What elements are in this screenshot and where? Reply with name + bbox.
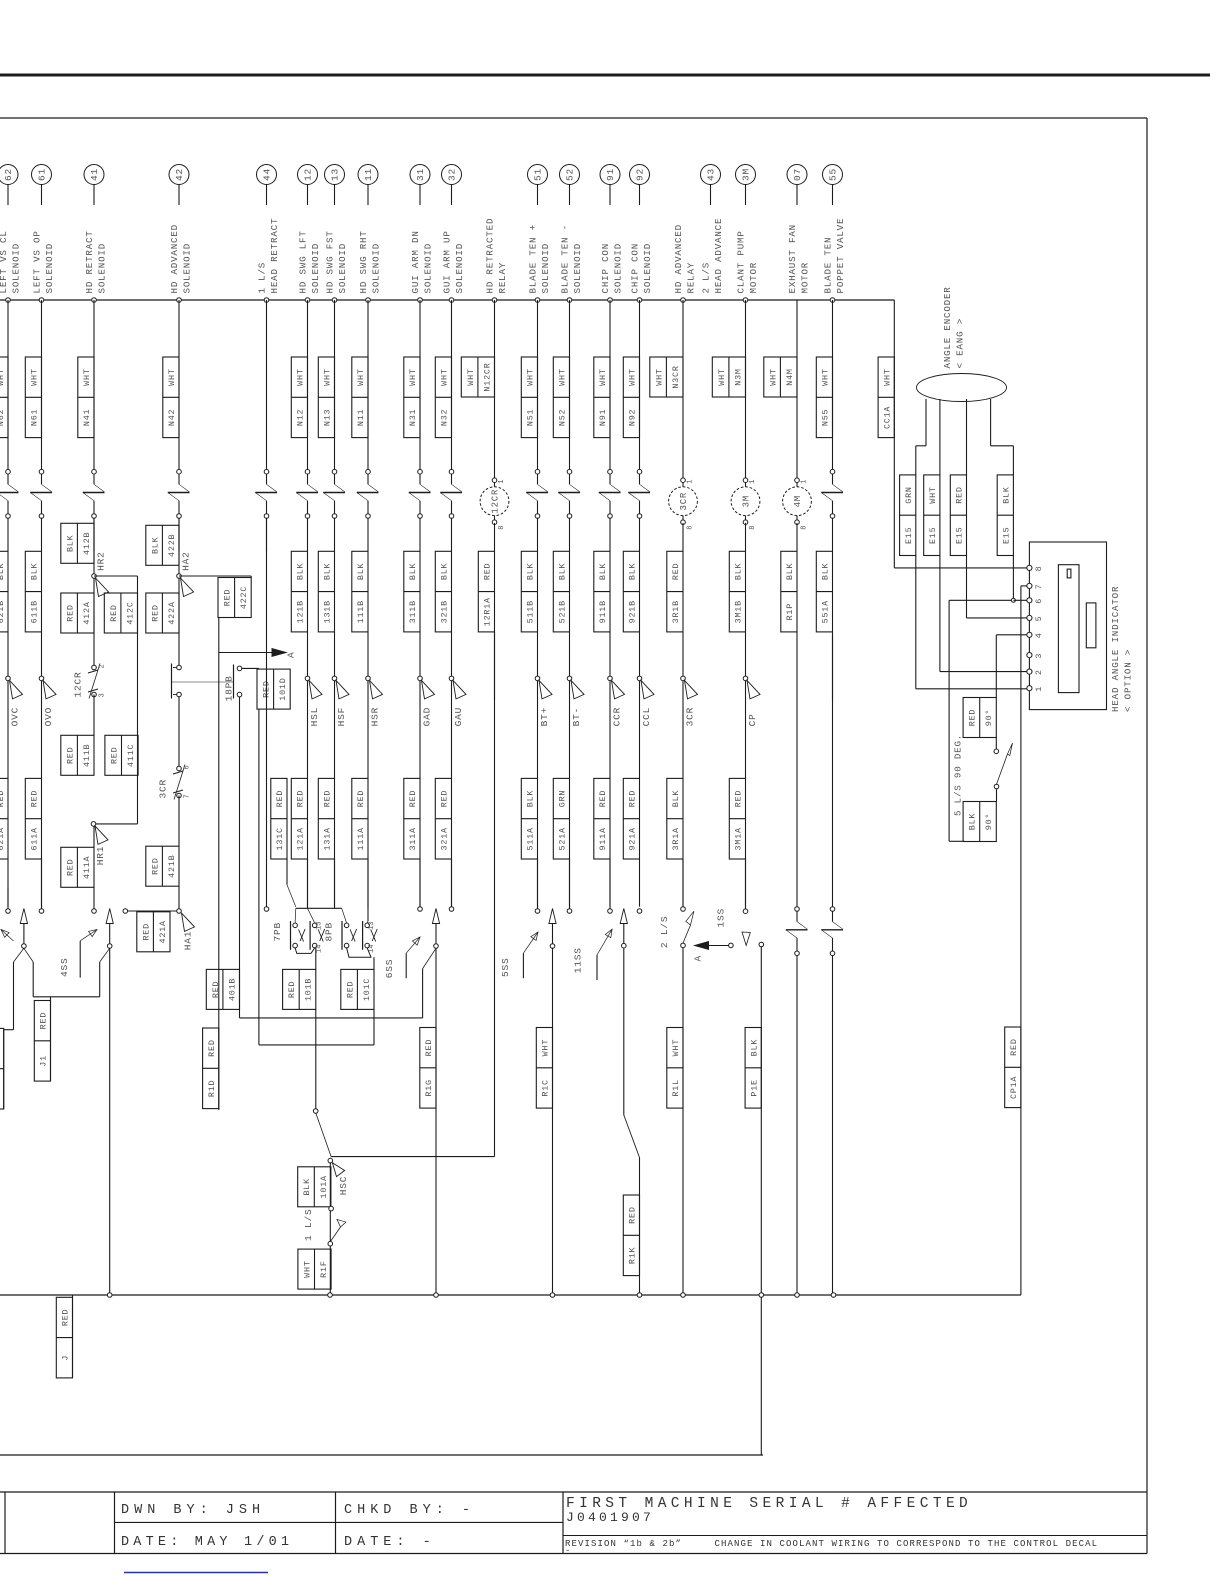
svg-text:13: 13 (368, 922, 376, 930)
svg-text:51: 51 (533, 168, 544, 181)
wire below arrow x=746 (745, 681, 747, 779)
title divider v1 (4, 1492, 6, 1554)
svg-text:WHT: WHT (541, 1039, 551, 1056)
svg-text:3R1A: 3R1A (671, 827, 681, 850)
selector 11SS handle (597, 929, 612, 955)
svg-text:REVISION “1b & 2b” CHANGE: REVISION “1b & 2b” CHANGE IN COOLANT WIR… (565, 1539, 1098, 1549)
svg-text:921B: 921B (628, 600, 638, 623)
terminal break at x=832 (821, 469, 843, 518)
wire: mid section x=8 (7, 632, 9, 678)
svg-text:BLK: BLK (628, 562, 638, 580)
wire label N61 WHT (25, 357, 41, 438)
svg-text:8: 8 (749, 525, 757, 529)
wire 101A down (329, 1163, 331, 1295)
rail node x=761 (759, 1293, 764, 1298)
head angle indicator outline (1029, 542, 1106, 710)
svg-text:SOLENOID: SOLENOID (642, 243, 653, 294)
stub from circle 51 (537, 185, 539, 206)
svg-text:3: 3 (1034, 653, 1044, 658)
svg-text:< EANG >: < EANG > (955, 318, 966, 369)
svg-text:311A: 311A (408, 827, 418, 850)
svg-text:BLK: BLK (1002, 486, 1012, 504)
svg-text:3M1A: 3M1A (734, 827, 744, 850)
wire 4M mid (796, 700, 798, 859)
svg-text:3R1B: 3R1B (671, 600, 681, 623)
svg-text:SOLENOID: SOLENOID (337, 243, 348, 294)
svg-text:A: A (693, 955, 704, 962)
8PB lower bracket (347, 948, 371, 957)
wire label J1 RED (34, 1001, 50, 1082)
svg-text:J1: J1 (39, 1055, 49, 1067)
svg-text:31: 31 (415, 168, 426, 181)
wire label N12 WHT (291, 357, 307, 438)
left leg to edge box (4, 1029, 14, 1031)
svg-text:< OPTION >: < OPTION > (1123, 649, 1134, 712)
pin 4 line to 90deg switch (996, 634, 1029, 636)
bus node at x=538 (535, 298, 540, 303)
svg-text:101D: 101D (278, 677, 288, 700)
svg-text:HSR: HSR (370, 707, 381, 727)
wire 51 to contact (537, 859, 539, 909)
wire number circle 42 (169, 165, 189, 185)
svg-text:5: 5 (1034, 616, 1044, 621)
load name label HD SWG FST SOLENOID (324, 230, 348, 293)
wire label N91 WHT (594, 357, 610, 438)
svg-text:CHKD BY: -: CHKD BY: - (344, 1503, 475, 1518)
svg-text:R1G: R1G (424, 1079, 434, 1096)
terminal break at x=368 (357, 469, 379, 518)
svg-text:412B: 412B (82, 532, 92, 555)
svg-text:HSF: HSF (336, 707, 347, 727)
wire label E15 WHT (924, 475, 940, 556)
contact end wire 44 (264, 907, 269, 912)
terminal break at x=832 (821, 907, 843, 956)
svg-text:411A: 411A (82, 855, 92, 878)
svg-text:8PB: 8PB (324, 922, 335, 942)
svg-text:111A: 111A (356, 827, 366, 850)
wire label CC1A WHT (878, 357, 894, 438)
wire label 131A RED (318, 778, 334, 859)
svg-text:BLK: BLK (323, 562, 333, 580)
svg-text:N3M: N3M (733, 368, 743, 385)
flow arrow HA1 (182, 913, 195, 950)
selector 6SS leg (384, 948, 436, 1018)
wire label N11 WHT (352, 357, 368, 438)
svg-text:SOLENOID: SOLENOID (422, 243, 433, 294)
svg-text:1: 1 (749, 479, 757, 483)
flow arrow GAD (418, 676, 435, 726)
contact end wire 52 (567, 909, 572, 914)
terminal break at x=334 (323, 469, 345, 518)
svg-text:R1C: R1C (541, 1079, 551, 1096)
HSC pivot (328, 1158, 333, 1163)
svg-text:911B: 911B (598, 600, 608, 623)
svg-text:DATE: MAY 1/01: DATE: MAY 1/01 (121, 1535, 293, 1550)
wire: bus to mid, x=42 (41, 300, 43, 472)
wire label N52 WHT (553, 357, 569, 438)
wire 41: 12CR to 411B (93, 695, 95, 736)
indicator side button (1086, 603, 1096, 648)
wire label 911A RED (594, 778, 610, 859)
load name label 2 L/S HEAD ADVANCE (700, 218, 724, 294)
svg-text:BLK: BLK (821, 562, 831, 580)
relay/motor coil 3CR (669, 478, 698, 530)
svg-text:WHT: WHT (558, 368, 568, 385)
svg-text:HR1: HR1 (95, 846, 106, 866)
svg-text:5SS: 5SS (500, 957, 511, 977)
svg-text:HD SWG RHT: HD SWG RHT (358, 230, 369, 293)
terminal break at x=452 (440, 469, 462, 518)
svg-text:RED: RED (408, 790, 418, 807)
bus node at x=640 (637, 298, 642, 303)
relay/motor coil 4M (783, 478, 812, 530)
svg-text:1: 1 (687, 479, 695, 483)
wire label 412A RED (61, 593, 94, 633)
wire label P1E BLK (745, 1028, 761, 1109)
svg-text:11SS: 11SS (573, 947, 584, 973)
svg-text:BLK: BLK (785, 562, 795, 580)
wire label R1F WHT (298, 1249, 331, 1289)
svg-text:BLK: BLK (65, 534, 75, 552)
flow arrow HA2 (181, 551, 194, 596)
svg-text:GAU: GAU (453, 707, 464, 727)
wire label 611A RED (25, 778, 41, 859)
wire 11 to 8PB (367, 859, 369, 921)
svg-text:551A: 551A (821, 600, 831, 623)
svg-text:SOLENOID: SOLENOID (96, 243, 107, 294)
svg-text:CHIP CON: CHIP CON (629, 243, 640, 294)
svg-text:BLK: BLK (749, 1039, 759, 1057)
wire: bus to mid, x=452 (451, 300, 453, 472)
load name label CLANT PUMP MOTOR (735, 230, 759, 293)
svg-text:18PB: 18PB (224, 675, 235, 701)
svg-text:311B: 311B (408, 600, 418, 623)
svg-text:RED: RED (150, 857, 160, 874)
load name label 1 L/S HEAD RETRACT (256, 218, 280, 294)
wire to contact x=452 (451, 859, 453, 907)
svg-text:N51: N51 (526, 409, 536, 426)
wire 31 to contact (419, 859, 421, 907)
svg-text:CC1A: CC1A (882, 406, 892, 429)
svg-text:HSC: HSC (338, 1176, 349, 1196)
svg-text:121A: 121A (296, 827, 306, 850)
wire label E15 RED (950, 475, 966, 556)
wire number circle 43 (701, 165, 721, 185)
svg-text:3M: 3M (742, 495, 752, 507)
svg-text:N12: N12 (296, 409, 306, 426)
wire label 121A RED (291, 778, 307, 859)
wire label N41 WHT (78, 357, 94, 438)
stub from circle 07 (796, 185, 798, 206)
wire number circle 07 (787, 165, 807, 185)
svg-text:HEAD ADVANCE: HEAD ADVANCE (713, 218, 724, 294)
wire number circle 51 (528, 165, 548, 185)
svg-text:OVO: OVO (43, 707, 54, 727)
bus node at x=334 (332, 298, 337, 303)
encoder wire BLK (991, 399, 1014, 598)
svg-text:321B: 321B (440, 600, 450, 623)
svg-text:8: 8 (687, 525, 695, 529)
wire 42: 3CR to 421B (178, 796, 180, 847)
svg-text:MOTOR: MOTOR (799, 262, 810, 294)
7PB lower bracket (295, 948, 315, 954)
wire 41: to 4SS contact (93, 887, 95, 908)
wire: mid section x=452 (451, 632, 453, 678)
svg-text:12R1A: 12R1A (483, 597, 493, 626)
svg-text:BLADE TEN -: BLADE TEN - (559, 224, 570, 293)
wire label 911B BLK (594, 551, 610, 632)
wire label N92 WHT (623, 357, 639, 438)
svg-text:WHT: WHT (717, 368, 727, 385)
wire label 412C RED (104, 593, 137, 633)
svg-text:RED: RED (671, 563, 681, 580)
svg-text:6: 6 (184, 765, 192, 769)
wire label N12CR WHT (461, 357, 494, 397)
wire label 521A GRN (553, 778, 569, 859)
wire label N62 WHT (0, 357, 8, 438)
load name label GUI ARM DN SOLENOID (410, 230, 434, 293)
svg-text:422B: 422B (167, 534, 177, 557)
wire to contact x=334 (334, 859, 336, 907)
junction to J1 (33, 996, 100, 998)
wire label J RED (72, 1295, 74, 1378)
svg-text:RED: RED (150, 604, 160, 621)
svg-text:WHT: WHT (598, 368, 608, 385)
svg-text:WHT: WHT (671, 1039, 681, 1056)
stub from circle 32 (451, 185, 453, 206)
wire label 401B RED (206, 969, 239, 1009)
wire label 90deg BLK (963, 802, 996, 842)
svg-text:611B: 611B (30, 600, 40, 623)
pushbutton 8PB pole 1 (342, 921, 357, 950)
wire below arrow x=42 (41, 681, 43, 779)
svg-text:WHT: WHT (928, 486, 938, 503)
svg-text:RED: RED (39, 1012, 49, 1029)
svg-text:62: 62 (3, 168, 14, 181)
svg-text:N91: N91 (598, 409, 608, 426)
wire: mid section x=308 (307, 632, 309, 678)
svg-text:91: 91 (605, 168, 616, 181)
branch 421A: left from HA1 (128, 910, 177, 912)
svg-text:SOLENOID: SOLENOID (181, 243, 192, 294)
pushbutton 18PB pole 2 (224, 665, 242, 702)
terminal break at x=640 (628, 469, 650, 518)
stub from circle 3M (745, 185, 747, 206)
svg-text:WHT: WHT (628, 368, 638, 385)
flow arrow CP (743, 676, 760, 726)
svg-text:2 L/S: 2 L/S (659, 916, 670, 949)
svg-text:101A: 101A (319, 1175, 329, 1198)
svg-text:N42: N42 (167, 409, 177, 426)
indicator name (1110, 586, 1134, 712)
wire label N4M WHT (764, 357, 797, 397)
svg-text:BLK: BLK (30, 562, 40, 580)
encoder wire WHT (940, 399, 1030, 672)
svg-text:55: 55 (828, 168, 839, 181)
svg-text:BLK: BLK (558, 562, 568, 580)
svg-text:EXHAUST FAN: EXHAUST FAN (787, 224, 798, 293)
svg-text:3M: 3M (741, 168, 752, 181)
terminal break at x=610 (599, 469, 621, 518)
svg-text:HD ADVANCED: HD ADVANCED (169, 224, 180, 293)
wire number circle 31 (410, 165, 430, 185)
contact end wire 92 (637, 909, 642, 914)
branch 422C to A: top (179, 575, 251, 577)
NC contact 12CR (73, 664, 107, 699)
load name label BLADE TEN - SOLENOID (559, 224, 583, 293)
wire label 111A RED (352, 778, 368, 859)
stub from circle 31 (419, 185, 421, 206)
svg-text:N92: N92 (628, 409, 638, 426)
wire label E15 BLK (997, 475, 1013, 556)
load name label CHIP CON SOLENOID (629, 243, 653, 294)
svg-text:N3CR: N3CR (671, 365, 681, 388)
rail node x=834 (831, 1293, 836, 1298)
svg-text:BLK: BLK (302, 1178, 312, 1196)
wire: bus to mid, x=494 (494, 300, 496, 478)
svg-text:N32: N32 (440, 409, 450, 426)
wire label R1G RED (420, 1028, 436, 1109)
wire below arrow x=570 (569, 681, 571, 779)
svg-text:CHIP CON: CHIP CON (600, 243, 611, 294)
svg-text:3CR: 3CR (158, 779, 169, 799)
svg-text:SOLENOID: SOLENOID (370, 243, 381, 294)
svg-text:8: 8 (498, 525, 506, 529)
bridge above pushbuttons (296, 907, 342, 909)
border: outer top heavy line (0, 74, 1210, 77)
selector 4SS handle (80, 930, 97, 941)
svg-text:RED: RED (223, 589, 233, 606)
svg-text:WHT: WHT (296, 368, 306, 385)
svg-text:61: 61 (37, 168, 48, 181)
flow arrow CCR (608, 676, 625, 726)
indicator pin 8 (1027, 565, 1044, 571)
6SS handle shaft (405, 953, 407, 978)
pushbutton 8PB pole 2 (363, 921, 378, 950)
wire: mid section x=683 (682, 632, 684, 678)
wire 4M to rail (796, 859, 798, 907)
wire: bus to mid, x=308 (307, 300, 309, 472)
svg-text:N31: N31 (408, 409, 418, 426)
wire: bus to mid, x=94 (93, 300, 95, 472)
svg-text:5 L/S 90 DEG.: 5 L/S 90 DEG. (953, 734, 964, 816)
wire label 412B BLK (61, 523, 94, 563)
title block top (0, 1491, 1147, 1493)
wire label 321A RED (435, 778, 451, 859)
bus node at x=308 (305, 298, 310, 303)
svg-text:CP1A: CP1A (1009, 1076, 1019, 1099)
svg-text:BLK: BLK (0, 562, 6, 580)
svg-text:90°: 90° (984, 813, 994, 830)
svg-text:411C: 411C (126, 744, 136, 767)
wire number circle 12 (298, 165, 318, 185)
svg-text:401B: 401B (227, 978, 237, 1001)
wire below arrow x=683 (682, 681, 684, 779)
svg-text:BLK: BLK (296, 562, 306, 580)
bus node at x=452 (449, 298, 454, 303)
bus node at x=42 (39, 298, 44, 303)
svg-text:N4M: N4M (785, 368, 795, 385)
svg-text:911A: 911A (598, 827, 608, 850)
node HR1 on wire 41 (91, 822, 96, 827)
wire 101B: down to HSC (315, 1009, 317, 1108)
wire: bus to mid, x=570 (569, 300, 571, 472)
svg-text:N62: N62 (0, 409, 6, 426)
svg-text:621A: 621A (0, 827, 6, 850)
svg-text:521B: 521B (558, 600, 568, 623)
svg-text:32: 32 (447, 168, 458, 181)
wire number circle 91 (600, 165, 620, 185)
svg-text:422A: 422A (167, 601, 177, 624)
wire label 921A RED (623, 778, 639, 859)
svg-text:E15: E15 (955, 527, 965, 544)
svg-text:4: 4 (1034, 633, 1044, 638)
wire 42: 18PB to 3CR contact (178, 697, 180, 769)
load name label HD ADVANCED RELAY (673, 224, 697, 293)
load name label HD SWG RHT SOLENOID (358, 230, 382, 293)
selector 4SS common (100, 909, 114, 1296)
svg-text:421A: 421A (158, 920, 168, 943)
contact end 421A (123, 909, 128, 914)
svg-text:E15: E15 (1002, 527, 1012, 544)
contact end wire 31 (418, 907, 423, 912)
border: inner frame right (1146, 118, 1148, 1492)
title revision divider (563, 1535, 1147, 1537)
load name label HD RETRACT SOLENOID (84, 230, 108, 293)
bus node at x=94 (92, 298, 97, 303)
limit switch 2 L/S (659, 911, 694, 948)
selector 11SS common (91/92) (620, 909, 639, 1296)
svg-text:N13: N13 (323, 409, 333, 426)
wire label 511B BLK (521, 551, 537, 632)
load name label HD ADVANCED SOLENOID (169, 224, 193, 293)
branch 422C: down to A tee (218, 618, 220, 653)
wire: mid section x=334 (334, 632, 336, 678)
wire number circle 41 (84, 165, 104, 185)
flow arrow HR1 (95, 826, 108, 865)
svg-text:E15: E15 (928, 527, 938, 544)
terminal break at x=420 (409, 469, 431, 518)
svg-text:WHT: WHT (654, 368, 664, 385)
junction 12R1A to HSC chain (331, 1156, 494, 1158)
wire below arrow x=420 (419, 681, 421, 779)
selector 5SS handle (523, 932, 538, 953)
wire: bus to mid, x=610 (609, 300, 611, 472)
wire number circle 44 (257, 165, 277, 185)
5SS handle shaft (522, 953, 524, 978)
terminal break at x=8 (0, 469, 19, 518)
svg-text:RED: RED (628, 790, 638, 807)
wire label 611B BLK (25, 551, 41, 632)
svg-text:BLK: BLK (671, 790, 681, 808)
wire label 411A RED (61, 847, 94, 887)
wire 12 into bridge (307, 859, 309, 908)
svg-text:J: J (61, 1355, 71, 1361)
wire label 101A BLK (298, 1167, 331, 1207)
wire 41: HR1 to 411A (93, 826, 95, 847)
wire label 101C RED (341, 969, 374, 1009)
off-page arrow A (left) (693, 942, 734, 962)
wire 3M to contact (745, 859, 747, 909)
pushbutton 7PB pole 2 (310, 921, 325, 950)
wire number circle 92 (630, 165, 650, 185)
pin 6 line (1013, 599, 1029, 601)
switch 5 L/S 90 DEG (953, 734, 1013, 816)
contact end wire 61 (39, 909, 44, 914)
wire label 422C RED (218, 578, 251, 618)
off-page arrow A (right) (219, 649, 297, 658)
svg-text:6: 6 (1034, 599, 1044, 604)
